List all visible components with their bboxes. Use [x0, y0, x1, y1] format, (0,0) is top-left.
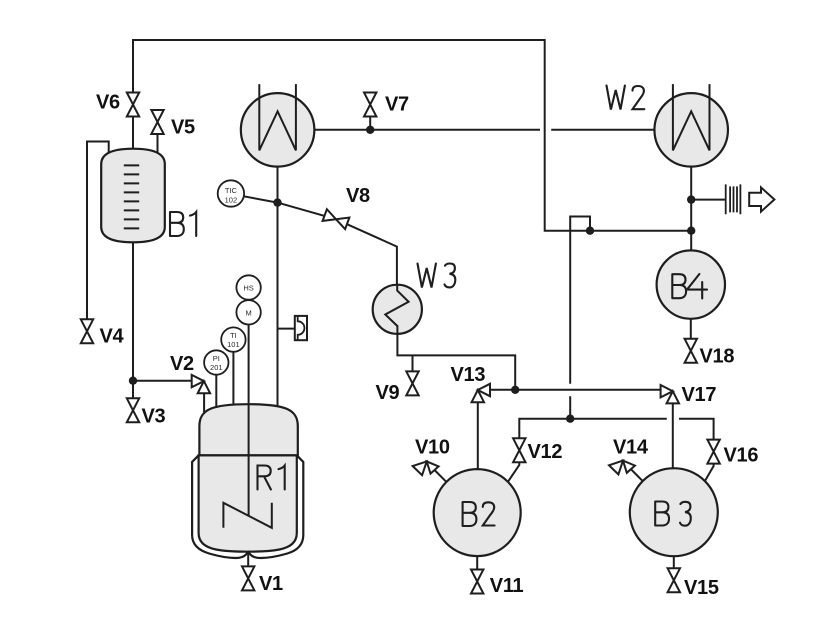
- valve V8: [323, 209, 350, 229]
- valve V12: [513, 438, 525, 462]
- vessel B2: [434, 469, 521, 556]
- wire: V14 stub to B3: [631, 469, 643, 481]
- wire: agitator shaft from M into R1: [248, 325, 250, 517]
- label B2: [463, 502, 495, 526]
- valve V10 (relief): [413, 461, 439, 475]
- svg-text:V18: V18: [700, 346, 735, 368]
- valve V4: [81, 319, 93, 343]
- wire: W2 bottom to B4: [690, 167, 692, 251]
- svg-text:V15: V15: [684, 577, 719, 599]
- svg-text:V9: V9: [376, 382, 400, 404]
- svg-text:V1: V1: [259, 573, 283, 595]
- svg-text:102: 102: [225, 195, 238, 204]
- node: W3 line onto header1: [511, 386, 519, 394]
- node: TIC tap on condensate line: [273, 198, 281, 206]
- instrument PI 201: [204, 350, 228, 374]
- svg-text:V6: V6: [96, 92, 120, 114]
- valve V17 (angle): [661, 385, 679, 403]
- wire: V17 downleg to B3: [672, 403, 674, 469]
- wire: B2 bottom to V11: [476, 556, 478, 569]
- valve V6: [127, 93, 139, 117]
- node: riser on header2: [566, 415, 574, 423]
- label W3: [418, 264, 456, 288]
- instrument HS: [236, 275, 260, 299]
- valve V1: [242, 566, 254, 590]
- svg-text:TI: TI: [230, 331, 237, 340]
- wire: B4 bottom to V18: [690, 319, 692, 339]
- valve V9: [406, 371, 418, 395]
- vessel B4: [657, 250, 725, 318]
- wire: V10 stub to B2: [435, 470, 447, 482]
- wire: B3 bottom to V15: [673, 556, 675, 568]
- label B3: [655, 502, 691, 526]
- node under V7: [366, 126, 374, 134]
- wire: condenser bottom down into R1 dome: [277, 167, 279, 407]
- vessel B1 (tray column): [101, 149, 165, 243]
- wire: riser from header2 up and over to B4 line (gap at header1): [570, 217, 590, 419]
- svg-text:V5: V5: [171, 117, 195, 139]
- valve V7: [364, 93, 376, 117]
- svg-text:HS: HS: [243, 283, 253, 292]
- svg-text:V12: V12: [528, 441, 563, 463]
- svg-text:V16: V16: [724, 445, 759, 467]
- svg-text:V17: V17: [682, 384, 717, 406]
- node: riser onto B4 feed line: [586, 227, 594, 235]
- node: B4 feed corner: [687, 227, 695, 235]
- valve V14 (relief): [609, 461, 635, 475]
- svg-text:V10: V10: [415, 437, 450, 459]
- wire: V7 stub: [369, 117, 371, 130]
- valve V3: [127, 398, 139, 422]
- wire: junction to V2 feed: [133, 380, 192, 382]
- rupture disc: [295, 316, 307, 340]
- wire: TIC 102 signal line: [243, 196, 277, 202]
- instrument M (agitator motor): [236, 300, 260, 324]
- label R1: [258, 466, 285, 490]
- wire: V6 to B1 top: [132, 117, 134, 150]
- svg-text:V4: V4: [100, 326, 125, 348]
- vent arrow: [749, 187, 774, 211]
- label B4: [672, 274, 707, 299]
- svg-text:V7: V7: [385, 94, 409, 116]
- wire: rupture disc branch: [278, 328, 295, 330]
- svg-text:M: M: [245, 308, 251, 317]
- valve V2 (angle): [192, 375, 210, 393]
- reactor R1 (jacketed stirred vessel): [192, 404, 303, 558]
- wire: B1 bottom down to V3: [132, 242, 134, 398]
- wire: W3 outlet to header: [397, 334, 515, 390]
- svg-text:PI: PI: [213, 354, 220, 363]
- wire: V12 to B2 shoulder: [508, 462, 519, 481]
- wire: reflux branch through V8 to W3: [278, 203, 397, 285]
- label W2: [607, 86, 645, 110]
- valve V15: [668, 568, 680, 592]
- wire: vent line: [691, 199, 726, 201]
- wire: V5 stub into B1 dome: [157, 134, 159, 153]
- svg-text:V13: V13: [451, 364, 486, 386]
- valve V18: [685, 339, 697, 363]
- instrument TI 101: [221, 327, 245, 351]
- node: vent tee: [687, 195, 695, 203]
- wire: top header from above V6 to right descent: [133, 40, 691, 231]
- wire: V2 downleg into R1 dome: [203, 393, 205, 414]
- wire: R1 bottom nozzle to V1: [247, 552, 249, 566]
- svg-text:201: 201: [210, 363, 223, 372]
- valve V16: [707, 440, 719, 464]
- valve V11: [471, 570, 483, 594]
- heat exchanger W2: [654, 84, 728, 167]
- svg-text:V2: V2: [170, 353, 194, 375]
- valve V13 (angle, mirrored): [472, 384, 490, 402]
- wire: V16 to B3 shoulder: [705, 464, 714, 482]
- valve V5: [151, 110, 163, 134]
- label B1: [170, 212, 196, 236]
- svg-text:101: 101: [227, 340, 240, 349]
- svg-text:TIC: TIC: [225, 186, 238, 195]
- wire: header2 with V12 and V16 drops (gap at V17 leg): [519, 419, 713, 440]
- wire: B1 dip tube to V4: [87, 142, 109, 320]
- svg-text:V14: V14: [613, 437, 649, 459]
- wire: condenser to W2 (gap at crossing): [314, 129, 654, 131]
- heat exchanger W3: [373, 285, 422, 334]
- wire: V13 downleg to B2: [477, 402, 479, 469]
- wire: PI 201 stem: [215, 375, 217, 408]
- vessel B3: [630, 468, 718, 556]
- wire: V9 stub: [412, 355, 414, 371]
- wire: header1 V13 to V17: [491, 389, 661, 391]
- svg-text:V8: V8: [346, 185, 370, 207]
- condenser W1 (unlabeled heat exchanger): [241, 84, 315, 167]
- heating coil in R1: [223, 503, 271, 528]
- instrument TIC 102: [218, 180, 244, 206]
- wire: TI 101 stem: [232, 352, 234, 406]
- node at V3/V2 junction: [129, 377, 137, 385]
- svg-text:V11: V11: [490, 575, 524, 597]
- svg-text:V3: V3: [142, 406, 166, 428]
- vent hatch: [726, 184, 741, 214]
